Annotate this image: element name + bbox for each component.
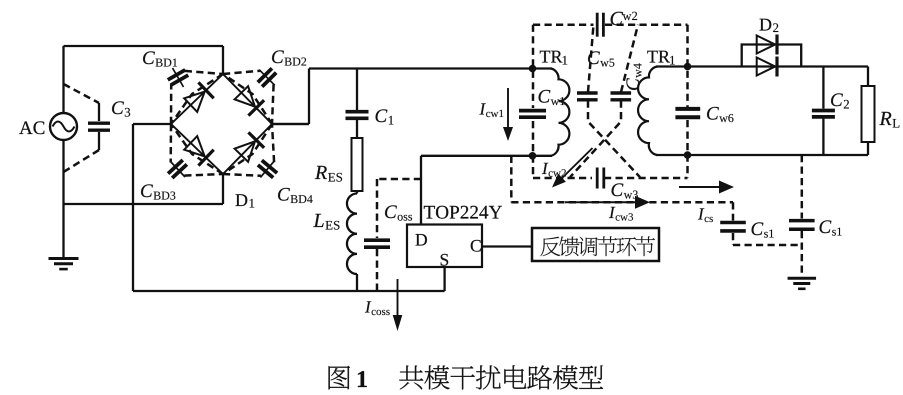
capacitor Coss [364, 179, 421, 291]
wire: bottom rail [133, 290, 445, 292]
node primary top [529, 65, 537, 73]
capacitor CBD4 with dashed loop [223, 124, 313, 203]
transformer TR1 secondary winding [638, 51, 675, 155]
dashed cross-coupling [570, 101, 640, 178]
wire: AC top rail to bridge [64, 45, 224, 47]
wire: C pin to feedback block [482, 245, 532, 247]
capacitor C2 [812, 67, 849, 156]
inductor LES [313, 191, 357, 291]
resistor RES [315, 138, 363, 191]
capacitor Cw5 [577, 25, 614, 100]
diodes D2 [742, 19, 802, 77]
current arrow Icw2 [542, 148, 593, 188]
diode D1d lower-right [235, 132, 265, 161]
ground (left) [49, 204, 79, 269]
capacitor Cw3 [597, 168, 638, 199]
capacitor Cw4 [611, 25, 642, 100]
ground (right) [788, 278, 817, 289]
wire: D pin to primary bottom [421, 156, 552, 225]
resistor RL [862, 67, 900, 156]
current arrow Icw3 [565, 196, 650, 221]
capacitor CBD2 with dashed loop [223, 50, 306, 124]
wire: top rail to primary [309, 67, 552, 69]
current arrow Icw1 [479, 88, 513, 141]
wire: bridge left vertex to bottom rail [132, 124, 134, 291]
capacitor C1 [346, 69, 394, 139]
wire: bridge right vertex to top rail [272, 69, 309, 125]
capacitor Cw2 [597, 12, 637, 37]
diode D1c lower-left [184, 136, 214, 166]
node secondary bottom [684, 151, 692, 159]
capacitor C3 [64, 84, 131, 172]
diode D1b upper-right [235, 86, 265, 115]
diode bridge D1 frame [133, 46, 309, 204]
feedback block [532, 228, 659, 261]
current arrow Icoss [365, 279, 402, 331]
wire: S pin to bottom rail [443, 267, 445, 291]
AC source [19, 46, 77, 204]
capacitor CBD3 with dashed loop [141, 124, 223, 200]
capacitor Cs1 left [720, 202, 802, 245]
capacitor CBD1 with dashed loop [143, 51, 223, 124]
capacitor Cw6 [675, 107, 733, 122]
wire: secondary bottom rail [656, 154, 868, 156]
diode D1a upper-left [184, 82, 214, 112]
node secondary top [684, 63, 692, 71]
IC TOP224Y [407, 206, 502, 267]
node primary bottom [529, 152, 537, 160]
capacitor Cw1 [519, 90, 565, 117]
caption [329, 365, 604, 389]
dashed path Icw3 [511, 156, 733, 203]
transformer dashed box [533, 25, 688, 178]
label D1 [236, 194, 255, 207]
capacitor Cs1 right [789, 155, 842, 276]
wire: AC bottom [64, 203, 224, 205]
label Ics [698, 208, 713, 222]
wire: secondary top rail [656, 65, 868, 67]
current arrow Ics [679, 181, 734, 194]
transformer TR1 primary winding [540, 51, 570, 156]
